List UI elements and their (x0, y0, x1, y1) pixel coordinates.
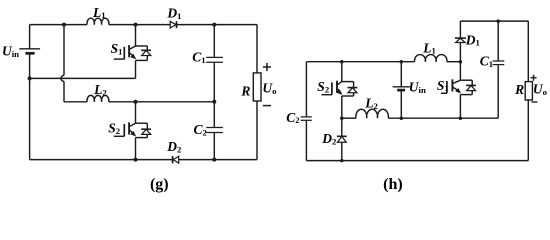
svg-text:(h): (h) (383, 176, 403, 193)
svg-text:R: R (240, 83, 250, 98)
svg-text:R: R (514, 82, 524, 97)
svg-text:(g): (g) (150, 176, 169, 193)
